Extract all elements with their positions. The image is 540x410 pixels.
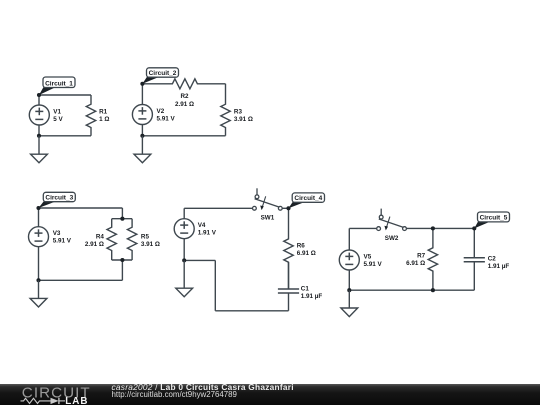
svg-text:Circuit_2: Circuit_2 bbox=[149, 70, 177, 77]
svg-text:SW2: SW2 bbox=[385, 235, 399, 242]
svg-text:Circuit_5: Circuit_5 bbox=[480, 215, 508, 222]
svg-text:2.91 Ω: 2.91 Ω bbox=[85, 241, 104, 248]
svg-text:1.91 µF: 1.91 µF bbox=[488, 263, 510, 270]
svg-text:1.91 V: 1.91 V bbox=[198, 230, 217, 237]
svg-text:C1: C1 bbox=[301, 285, 310, 292]
svg-text:1 Ω: 1 Ω bbox=[99, 116, 109, 123]
svg-text:V2: V2 bbox=[157, 108, 165, 115]
svg-text:SW1: SW1 bbox=[261, 214, 275, 221]
svg-text:R6: R6 bbox=[297, 243, 306, 250]
svg-text:5.91 V: 5.91 V bbox=[364, 261, 383, 268]
svg-text:R7: R7 bbox=[417, 253, 426, 260]
svg-text:LAB: LAB bbox=[65, 396, 88, 405]
svg-text:R5: R5 bbox=[141, 234, 150, 241]
svg-text:Circuit_1: Circuit_1 bbox=[45, 80, 73, 87]
svg-text:5.91 V: 5.91 V bbox=[157, 115, 176, 122]
svg-text:V3: V3 bbox=[53, 230, 61, 237]
svg-text:6.91 Ω: 6.91 Ω bbox=[297, 250, 316, 257]
svg-text:2.91 Ω: 2.91 Ω bbox=[175, 101, 194, 108]
svg-text:5 V: 5 V bbox=[53, 116, 63, 123]
svg-text:http://circuitlab.com/ct9hyw27: http://circuitlab.com/ct9hyw2764789 bbox=[112, 390, 238, 399]
svg-text:R2: R2 bbox=[180, 93, 189, 100]
svg-text:Circuit_3: Circuit_3 bbox=[45, 195, 73, 202]
svg-text:R4: R4 bbox=[96, 234, 105, 241]
svg-text:C2: C2 bbox=[488, 256, 497, 263]
svg-text:R3: R3 bbox=[234, 108, 243, 115]
svg-text:6.91 Ω: 6.91 Ω bbox=[406, 260, 425, 267]
svg-text:V4: V4 bbox=[198, 222, 206, 229]
svg-text:5.91 V: 5.91 V bbox=[53, 238, 72, 245]
svg-text:Circuit_4: Circuit_4 bbox=[294, 195, 322, 202]
svg-text:R1: R1 bbox=[99, 109, 108, 116]
svg-text:1.91 µF: 1.91 µF bbox=[301, 293, 323, 300]
svg-text:3.91 Ω: 3.91 Ω bbox=[234, 116, 253, 123]
svg-text:V5: V5 bbox=[364, 253, 372, 260]
svg-text:3.91 Ω: 3.91 Ω bbox=[141, 241, 160, 248]
svg-text:V1: V1 bbox=[53, 108, 61, 115]
